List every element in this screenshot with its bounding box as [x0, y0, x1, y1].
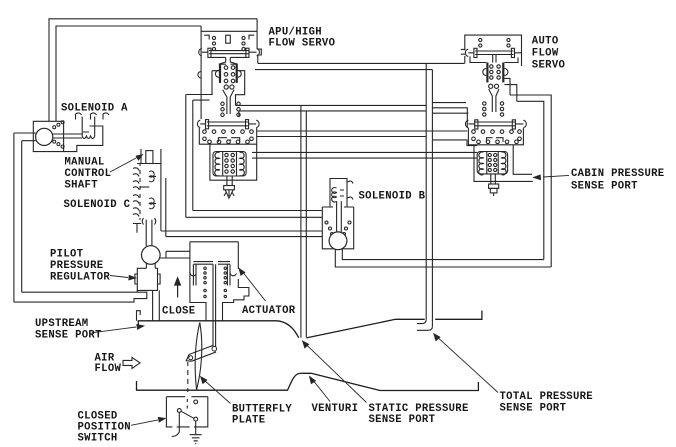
- APU servo nozzle funnel: [223, 90, 234, 114]
- svg-text:SOLENOID B: SOLENOID B: [359, 191, 426, 203]
- solenoid C output claw: [142, 218, 156, 225]
- APU/high flow servo first stage: [198, 19, 260, 119]
- node tee: vertical pipe pair down from supply wire: [425, 63, 427, 319]
- svg-text:SENSE PORT: SENSE PORT: [35, 329, 102, 341]
- wire stub pair at APU nozzle left: [186, 94, 213, 96]
- solenoid A box: [33, 121, 63, 151]
- ground symbol: [190, 435, 202, 444]
- wire pair solenoid A to upstream body: [14, 133, 36, 302]
- arrow to butterfly plate: [205, 381, 231, 404]
- svg-text:SENSE PORT: SENSE PORT: [500, 402, 567, 414]
- solenoid C column: [133, 164, 166, 247]
- regulator outlet to body: [153, 290, 160, 320]
- actuator: [190, 242, 249, 349]
- manual control shaft: [137, 149, 161, 164]
- arrow to cabin pressure port: [543, 175, 569, 177]
- duct upper wall venturi diffuser diagonal: [306, 319, 424, 338]
- svg-text:PRESSURE: PRESSURE: [50, 260, 103, 272]
- svg-text:SHAFT: SHAFT: [65, 179, 99, 191]
- arrow to actuator: [244, 273, 266, 301]
- APU servo torque motor coil block: [210, 144, 257, 198]
- valve body outline left of actuator: [159, 251, 190, 258]
- APU servo main stage spool: [197, 102, 259, 144]
- wire pair solenoid B outlet to right risers: [335, 249, 551, 267]
- solenoid A coil: [82, 117, 95, 136]
- svg-text:CLOSE: CLOSE: [162, 306, 195, 318]
- actuator piston rod: [213, 264, 216, 348]
- auto servo torque motor coil block: [477, 152, 507, 197]
- wire pair A from APU servo nozzle to vertical pipes: [236, 104, 427, 106]
- wire supply outer from solenoid A to APU servo: [49, 19, 257, 122]
- duct upper wall left: [138, 321, 298, 338]
- auto servo flapper stage: [486, 63, 488, 83]
- pilot pressure regulator: [142, 246, 161, 265]
- closed position switch: [166, 397, 207, 437]
- svg-text:CONTROL: CONTROL: [65, 168, 112, 180]
- auto servo chamber bottom: [470, 56, 518, 62]
- duct upper wall right segment: [435, 311, 482, 320]
- APU servo chamber bottom: [212, 56, 247, 58]
- APU servo spool: [209, 51, 248, 54]
- svg-text:PILOT: PILOT: [50, 249, 84, 261]
- arrow to venturi: [314, 381, 330, 401]
- svg-text:FLOW: FLOW: [95, 363, 122, 375]
- close direction arrow: [174, 276, 181, 297]
- auto servo nozzle funnel: [489, 89, 499, 112]
- arrow to upstream sense port: [92, 327, 137, 333]
- svg-text:PLATE: PLATE: [232, 415, 265, 427]
- svg-text:APU/HIGH: APU/HIGH: [269, 26, 322, 38]
- solenoid B coil frame: [322, 179, 353, 249]
- wire jog at APU servo right outlet: [257, 49, 261, 63]
- svg-text:SWITCH: SWITCH: [78, 433, 118, 445]
- actuator springs: [204, 267, 206, 269]
- total pressure probe elbow: [417, 320, 426, 324]
- wire jogs auto servo second stage right: [504, 78, 510, 95]
- butterfly crank arm: [186, 346, 215, 362]
- svg-text:SENSE PORT: SENSE PORT: [571, 181, 638, 193]
- wire lower run to upstream sense cavity: [14, 292, 147, 302]
- svg-text:FLOW SERVO: FLOW SERVO: [269, 38, 336, 50]
- wire pair C from APU coil block to auto coil block: [252, 151, 477, 153]
- svg-text:CABIN PRESSURE: CABIN PRESSURE: [571, 168, 664, 180]
- arrow to static pressure port: [307, 345, 367, 402]
- wire pair left vertical from stub down: [185, 95, 187, 218]
- solenoid A plunger rod: [53, 134, 82, 138]
- APU servo main stage body: [199, 128, 256, 144]
- APU servo feedback stem and tip: [227, 176, 232, 186]
- svg-text:SOLENOID C: SOLENOID C: [64, 199, 131, 211]
- wire pair B from APU main stage to auto servo main stage: [257, 130, 468, 132]
- svg-text:SERVO: SERVO: [532, 59, 565, 71]
- duct lower wall left: [137, 373, 479, 390]
- svg-text:SENSE PORT: SENSE PORT: [369, 414, 436, 426]
- bracket tee: [133, 224, 141, 233]
- svg-text:ACTUATOR: ACTUATOR: [242, 305, 296, 317]
- wire pair APU servo to auto servo top: [258, 62, 465, 64]
- wire supply inner from solenoid A to APU servo: [56, 26, 201, 122]
- wire pair static pressure verticals: [300, 105, 302, 337]
- cabin pressure port lines: [513, 145, 532, 174]
- APU servo enclosure: [210, 144, 257, 180]
- leader arrows: [92, 155, 570, 426]
- solenoid A contact hooks: [76, 113, 97, 132]
- solenoid A pilot ball: [36, 128, 53, 145]
- wire pair A jog at left end: [236, 71, 245, 106]
- auto servo spool: [475, 51, 513, 55]
- auto servo feedback stem and fitting: [491, 174, 496, 184]
- arrow to regulator: [110, 276, 128, 278]
- APU servo flapper stage: [215, 64, 241, 114]
- svg-text:TOTAL PRESSURE: TOTAL PRESSURE: [500, 391, 593, 403]
- butterfly plate: [186, 323, 215, 393]
- auto flow servo first stage: [465, 35, 522, 112]
- wire pair A right of vertical pipes to auto servo: [432, 102, 466, 104]
- actuator cylinder: [193, 262, 230, 265]
- solenoid B valve body: [322, 206, 353, 208]
- svg-text:SOLENOID A: SOLENOID A: [61, 103, 128, 115]
- svg-text:VENTURI: VENTURI: [312, 403, 359, 415]
- svg-text:MANUAL: MANUAL: [65, 157, 105, 169]
- upstream sense cavity: [137, 311, 141, 321]
- arrow to total pressure port: [438, 338, 498, 393]
- wire risers up to auto servo right side: [510, 95, 551, 267]
- auto flow servo main stage: [465, 102, 526, 145]
- svg-text:FLOW: FLOW: [532, 48, 559, 60]
- svg-text:AUTO: AUTO: [532, 36, 559, 48]
- solenoid B ball: [329, 232, 347, 250]
- regulator body bottom edge: [136, 290, 138, 292]
- svg-text:UPSTREAM: UPSTREAM: [35, 318, 88, 330]
- air flow block arrow: [123, 357, 140, 368]
- arrow to closed position switch: [131, 420, 158, 425]
- wire pair P2 from solenoid C body to solenoid B: [161, 230, 322, 232]
- switch ground wire: [195, 421, 197, 435]
- wire pair B right jog to auto coil block: [433, 140, 477, 146]
- wire pair P1 to solenoid B top: [193, 210, 322, 212]
- restrictor in auto servo supply: [461, 49, 466, 63]
- switch wire and contact hook: [172, 412, 180, 436]
- arrow to manual control shaft: [110, 158, 137, 173]
- svg-text:REGULATOR: REGULATOR: [50, 271, 110, 283]
